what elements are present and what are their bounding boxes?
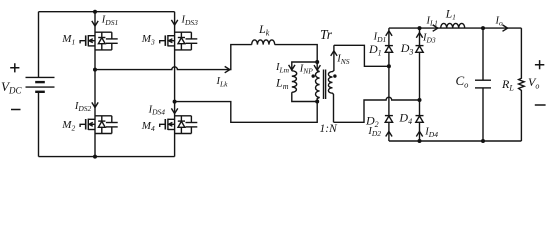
- polarity dot primary: [312, 74, 315, 77]
- svg-text:M1: M1: [61, 33, 75, 46]
- svg-text:Tr: Tr: [320, 27, 333, 42]
- transistor M3: [160, 32, 198, 50]
- node leg2 mid B: [173, 100, 177, 104]
- svg-text:Co: Co: [456, 73, 469, 90]
- wire rectifier right leg: [419, 28, 421, 141]
- arrow ID1: [386, 31, 392, 36]
- svg-text:L1: L1: [445, 8, 456, 21]
- wire Lm bottom lead: [292, 92, 317, 101]
- node D1 anode: [387, 64, 391, 68]
- svg-text:IDS4: IDS4: [148, 104, 166, 116]
- inductor Lk: [252, 40, 275, 45]
- wire rectifier top rail: [389, 27, 522, 29]
- svg-text:D1: D1: [368, 42, 382, 58]
- svg-text:Vo: Vo: [528, 75, 539, 91]
- polarity dot secondary: [333, 74, 336, 77]
- wire leg 2: [174, 12, 176, 157]
- svg-text:INP: INP: [299, 63, 314, 75]
- wire Lm top lead: [292, 62, 317, 71]
- transistor M2: [80, 116, 118, 134]
- label - (input): [11, 109, 21, 111]
- svg-text:IL1: IL1: [426, 15, 438, 27]
- arrow ILk: [225, 66, 230, 72]
- svg-text:M4: M4: [141, 120, 155, 133]
- inductor L1: [441, 23, 465, 28]
- diode D4: [416, 116, 424, 123]
- wire leg 1: [94, 12, 96, 157]
- wire secondary top jog to D1 leg: [334, 45, 389, 66]
- node Co top: [481, 26, 485, 30]
- arrow ID4: [416, 131, 422, 136]
- svg-text:D4: D4: [398, 111, 412, 127]
- svg-text:D3: D3: [400, 41, 414, 57]
- diode D1: [385, 46, 393, 53]
- arrow ID3: [416, 33, 422, 38]
- transformer T1 secondary winding: [328, 45, 334, 122]
- arrow IDS1: [92, 21, 98, 26]
- svg-text:IDS2: IDS2: [74, 101, 92, 113]
- transistor M1: [80, 32, 118, 50]
- svg-text:VDC: VDC: [1, 79, 22, 96]
- node top rail D3: [418, 26, 422, 30]
- svg-text:INS: INS: [336, 54, 350, 66]
- node Co bottom: [481, 139, 485, 143]
- svg-text:RL: RL: [501, 77, 514, 93]
- wire secondary bottom jog to D4 leg (with hop over D2 leg): [334, 97, 420, 122]
- wire Lk to primary top node: [275, 45, 318, 62]
- wire rectifier bottom rail: [389, 140, 522, 142]
- svg-text:M2: M2: [61, 119, 75, 132]
- arrow IDS3: [171, 20, 177, 25]
- label - (output): [535, 104, 546, 106]
- diode D2: [385, 116, 393, 123]
- svg-text:1:N: 1:N: [320, 123, 339, 135]
- capacitor Co: [475, 28, 491, 141]
- node primary bottom: [315, 100, 319, 104]
- wire node B to primary bottom: [175, 102, 318, 123]
- arrow IDS2: [92, 102, 98, 107]
- svg-text:M3: M3: [141, 33, 155, 46]
- arrow Io: [503, 25, 508, 31]
- transformer T1 primary winding: [315, 62, 319, 102]
- label + (output): [535, 60, 544, 69]
- transformer core: [324, 70, 326, 100]
- arrow IDS4: [171, 108, 177, 113]
- arrow ID2: [386, 131, 392, 136]
- node leg1 bottom: [93, 155, 97, 159]
- svg-text:ID3: ID3: [422, 32, 436, 44]
- node bottom rail D4: [418, 139, 422, 143]
- inductor Lm: [292, 71, 297, 93]
- resistor RL: [519, 28, 525, 141]
- svg-text:ILm: ILm: [275, 62, 290, 74]
- wire bottom bus: [39, 156, 175, 158]
- transistor M4: [160, 116, 198, 134]
- node D4 cathode: [418, 98, 422, 102]
- node primary top: [315, 60, 319, 64]
- arrow INS: [331, 51, 337, 56]
- svg-text:D2: D2: [365, 113, 379, 129]
- svg-text:ID4: ID4: [424, 127, 438, 139]
- svg-text:IDS1: IDS1: [101, 15, 118, 27]
- wire node A to Lk (with hop over leg2): [95, 45, 252, 70]
- node leg1 top: [93, 10, 97, 14]
- diode D3: [416, 46, 424, 53]
- wire rectifier left leg: [388, 28, 390, 141]
- svg-text:IDS3: IDS3: [181, 15, 199, 27]
- arrow IL1: [433, 25, 438, 31]
- battery VDC: [26, 12, 55, 157]
- node leg1 mid A: [93, 68, 97, 72]
- svg-text:Io: Io: [495, 15, 504, 27]
- arrow INP: [314, 65, 320, 70]
- svg-text:Lm: Lm: [275, 76, 289, 92]
- arrow ILm: [289, 65, 295, 70]
- wire top bus: [39, 11, 175, 13]
- svg-text:ILk: ILk: [216, 76, 229, 88]
- svg-text:Lk: Lk: [258, 22, 270, 38]
- label + (input): [10, 63, 19, 72]
